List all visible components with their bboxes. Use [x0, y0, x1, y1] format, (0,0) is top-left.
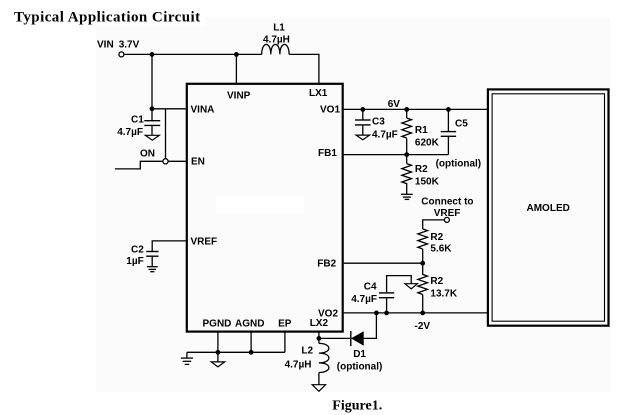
junction FB1/R1/R2	[404, 152, 409, 157]
node VREF terminal	[444, 217, 449, 222]
svg-text:6V: 6V	[388, 99, 401, 110]
ground arrow below C1	[145, 135, 159, 140]
wire VINP drop	[235, 54, 237, 84]
resistor R2 5.6K	[418, 229, 428, 263]
junction VINA/C1	[150, 106, 155, 111]
ground arrow below C3	[356, 135, 370, 140]
wire LX2 to D1	[319, 337, 350, 339]
pin wire AGND	[250, 333, 252, 353]
AMOLED panel block	[488, 89, 609, 325]
wire L2 to ground	[318, 373, 320, 385]
svg-text:R2: R2	[415, 164, 428, 175]
svg-text:4.7µF: 4.7µF	[117, 127, 143, 138]
junction AGND	[249, 350, 254, 355]
svg-text:5.6K: 5.6K	[430, 244, 452, 255]
resistor R2 150K	[402, 155, 412, 194]
wire D1 to VO2	[363, 313, 376, 339]
svg-text:VINA: VINA	[191, 104, 215, 115]
svg-text:C4: C4	[364, 281, 377, 292]
inductor L1	[262, 44, 289, 54]
junction PGND	[216, 350, 221, 355]
svg-text:VIN: VIN	[97, 39, 114, 50]
svg-text:1µF: 1µF	[126, 256, 143, 267]
wire VIN down to VINA	[151, 54, 153, 108]
junction C5 top	[446, 107, 451, 112]
svg-text:L1: L1	[273, 22, 285, 33]
wire FB2	[344, 262, 423, 264]
svg-text:D1: D1	[353, 349, 366, 360]
wire VREF terminal to R2 5.6K	[423, 220, 445, 229]
svg-text:4.7µF: 4.7µF	[372, 129, 398, 140]
wire VREF pin	[152, 241, 186, 251]
wire VO1 rail	[344, 108, 488, 110]
diode D1	[351, 331, 364, 346]
svg-text:LX1: LX1	[309, 88, 328, 99]
ground arrow below L2	[312, 385, 325, 392]
svg-text:13.7K: 13.7K	[430, 288, 457, 299]
svg-text:EP: EP	[278, 319, 292, 330]
resistor R1 620K	[402, 109, 412, 154]
junction VINP branch	[234, 52, 239, 57]
svg-text:Connect to: Connect to	[421, 197, 473, 208]
node VIN input terminal	[119, 52, 124, 57]
svg-text:L2: L2	[301, 346, 313, 357]
pin wire PGND	[217, 333, 219, 353]
wire EN pin	[168, 160, 186, 162]
pin wire EP	[284, 333, 286, 353]
arrow head C4 tap	[405, 284, 417, 289]
svg-text:3.7V: 3.7V	[119, 39, 140, 50]
svg-text:AGND: AGND	[235, 319, 264, 330]
svg-text:(optional): (optional)	[436, 159, 482, 170]
junction C4 branch	[384, 311, 389, 316]
wire ground bus	[187, 351, 285, 353]
svg-text:EN: EN	[191, 157, 205, 168]
svg-text:VO1: VO1	[320, 104, 340, 115]
svg-text:ON: ON	[140, 148, 155, 159]
svg-text:Figure1.: Figure1.	[332, 398, 382, 413]
svg-text:FB2: FB2	[317, 258, 336, 269]
svg-text:AMOLED: AMOLED	[527, 203, 570, 214]
capacitor C5	[441, 109, 456, 154]
junction LX2/L2/D1	[317, 336, 322, 341]
svg-text:LX2: LX2	[310, 318, 329, 329]
svg-text:-2V: -2V	[415, 321, 431, 332]
junction R1 top	[404, 107, 409, 112]
wire L1 to LX1 corner	[289, 54, 319, 84]
ground bars at bus left	[181, 352, 193, 364]
ground arrow below PGND	[211, 352, 225, 367]
pin wire LX2	[318, 333, 320, 344]
wire VINA tie down to EN node	[165, 109, 167, 159]
svg-text:R2: R2	[430, 276, 443, 287]
svg-text:VINP: VINP	[227, 90, 251, 101]
svg-text:VREF: VREF	[191, 236, 218, 247]
svg-text:FB1: FB1	[318, 148, 337, 159]
capacitor C1	[144, 109, 160, 136]
wire VIN rail to L1	[124, 53, 262, 55]
junction R2 13.7K top of VO2	[420, 311, 425, 316]
svg-text:PGND: PGND	[203, 319, 232, 330]
wire FB1	[344, 154, 449, 156]
junction FB2 divider	[420, 261, 425, 266]
svg-text:4.7µH: 4.7µH	[285, 360, 312, 371]
IC U1 body	[187, 84, 343, 332]
junction C3	[360, 107, 365, 112]
svg-text:C2: C2	[131, 244, 144, 255]
svg-text:R1: R1	[415, 125, 428, 136]
svg-text:4.7µF: 4.7µF	[351, 294, 377, 305]
ON step waveform	[115, 161, 163, 169]
capacitor C4	[379, 276, 411, 313]
svg-text:620K: 620K	[415, 138, 440, 149]
junction D1 branch	[374, 311, 379, 316]
svg-text:R2: R2	[430, 232, 443, 243]
capacitor C2	[146, 252, 158, 267]
node EN terminal	[163, 159, 168, 164]
svg-text:C1: C1	[131, 114, 144, 125]
wire VINA pin	[152, 108, 186, 110]
inductor L2	[319, 343, 329, 372]
svg-text:(optional): (optional)	[337, 362, 383, 373]
resistor R2 13.7K	[418, 263, 428, 313]
junction VIN/C1 branch	[150, 52, 155, 57]
svg-text:C3: C3	[372, 117, 385, 128]
capacitor C3	[355, 109, 371, 135]
ground bars below C2	[147, 267, 158, 272]
svg-text:C5: C5	[455, 118, 468, 129]
svg-text:Typical Application Circuit: Typical Application Circuit	[14, 10, 201, 26]
svg-text:150K: 150K	[415, 177, 440, 188]
svg-text:4.7µH: 4.7µH	[263, 34, 290, 45]
ground bars below R2 150K	[401, 194, 413, 199]
wire VO2 rail	[344, 312, 488, 314]
